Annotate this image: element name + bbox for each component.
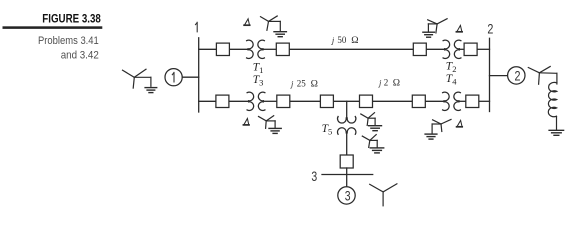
svg-text:25: 25 bbox=[297, 78, 307, 88]
svg-text:3: 3 bbox=[345, 189, 351, 205]
svg-text:3: 3 bbox=[311, 169, 317, 185]
svg-text:2: 2 bbox=[487, 21, 493, 37]
svg-text:FIGURE 3.38: FIGURE 3.38 bbox=[42, 12, 101, 26]
svg-text:Ω: Ω bbox=[311, 78, 318, 89]
svg-text:2: 2 bbox=[515, 69, 521, 85]
svg-text:Ω: Ω bbox=[351, 35, 358, 46]
svg-text:and 3.42: and 3.42 bbox=[61, 50, 99, 62]
svg-text:Problems 3.41: Problems 3.41 bbox=[38, 35, 99, 47]
svg-text:50: 50 bbox=[337, 35, 347, 45]
svg-text:2: 2 bbox=[384, 78, 389, 88]
svg-text:Ω: Ω bbox=[393, 78, 400, 89]
